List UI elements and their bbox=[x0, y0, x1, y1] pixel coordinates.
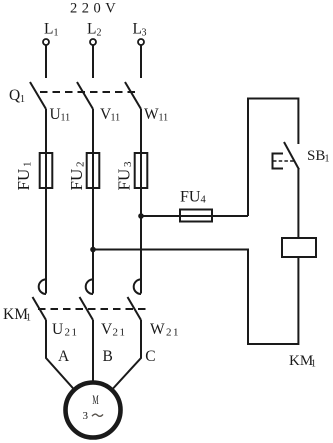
svg-text:B: B bbox=[103, 348, 113, 365]
svg-text:220V: 220V bbox=[70, 1, 120, 17]
svg-text:FU: FU bbox=[67, 169, 86, 191]
svg-text:V: V bbox=[101, 321, 113, 338]
svg-text:3: 3 bbox=[83, 410, 89, 422]
fuse FU1 bbox=[40, 153, 53, 188]
terminal L2 bbox=[90, 39, 96, 45]
svg-text:A: A bbox=[58, 348, 70, 365]
pushbutton SB1 blade bbox=[284, 142, 299, 170]
motor M1 circle bbox=[66, 383, 121, 438]
pushbutton SB1 actuator bbox=[273, 153, 295, 170]
wire phase A to motor bbox=[46, 320, 74, 389]
switch Q1 pole 2 blade bbox=[77, 82, 93, 109]
node W11 bbox=[144, 106, 168, 124]
svg-text:1: 1 bbox=[311, 359, 316, 370]
svg-text:4: 4 bbox=[201, 195, 207, 206]
node L3 bbox=[133, 21, 147, 39]
wire phase B to motor bbox=[92, 320, 94, 382]
fuse FU4 bbox=[180, 210, 212, 222]
terminal L3 bbox=[138, 39, 144, 45]
svg-text:Q: Q bbox=[9, 87, 20, 104]
svg-text:2: 2 bbox=[75, 162, 87, 168]
switch Q1 pole 3 blade bbox=[125, 82, 141, 109]
wire V phase vertical bbox=[92, 109, 94, 294]
pushbutton SB1 label bbox=[307, 148, 330, 165]
junction on V phase bbox=[90, 247, 96, 253]
switch Q1 linkage dashed line bbox=[40, 91, 140, 93]
svg-text:SB: SB bbox=[307, 148, 325, 164]
svg-text:1: 1 bbox=[325, 154, 330, 165]
switch Q1 pole 1 blade bbox=[30, 82, 46, 109]
svg-text:21: 21 bbox=[65, 327, 79, 339]
node L2 bbox=[87, 21, 102, 39]
wire L1 to switch bbox=[45, 45, 47, 78]
wire control loop up and across to SB1 bbox=[248, 99, 298, 217]
svg-text:2: 2 bbox=[97, 28, 102, 39]
svg-text:KM: KM bbox=[289, 353, 313, 369]
fuse FU2 label bbox=[67, 162, 87, 191]
node W21 bbox=[150, 321, 180, 339]
motor 3-phase label bbox=[83, 410, 104, 422]
svg-text:11: 11 bbox=[111, 113, 121, 124]
svg-text:U: U bbox=[52, 321, 63, 338]
switch Q1 label bbox=[9, 87, 25, 105]
svg-text:1: 1 bbox=[20, 94, 25, 105]
svg-text:1: 1 bbox=[26, 313, 31, 324]
svg-text:U: U bbox=[50, 106, 61, 123]
coil KM1 label bbox=[289, 353, 316, 370]
contactor coil KM1 bbox=[282, 238, 316, 257]
fuse FU2 bbox=[87, 153, 100, 188]
svg-text:11: 11 bbox=[61, 113, 71, 124]
wire phase C to motor bbox=[113, 320, 141, 389]
svg-text:21: 21 bbox=[113, 327, 127, 339]
fuse FU3 bbox=[135, 153, 148, 188]
contactor KM1 label bbox=[3, 306, 31, 324]
svg-text:W: W bbox=[144, 106, 159, 123]
contactor KM1 pole 1 arc bbox=[39, 279, 46, 294]
junction on W phase bbox=[138, 213, 144, 219]
svg-text:W: W bbox=[150, 321, 165, 338]
svg-text:C: C bbox=[145, 348, 155, 365]
svg-text:21: 21 bbox=[166, 327, 180, 339]
fuse FU4 label bbox=[180, 189, 207, 206]
svg-text:L: L bbox=[44, 21, 53, 38]
node L1 bbox=[44, 21, 59, 39]
svg-text:FU: FU bbox=[14, 169, 33, 191]
contactor KM1 pole 1 blade bbox=[33, 297, 47, 320]
svg-text:11: 11 bbox=[159, 113, 169, 124]
wire U phase vertical bbox=[45, 109, 47, 294]
contactor KM1 pole 2 arc bbox=[86, 279, 93, 294]
wire W junction to FU4 and control loop bbox=[141, 215, 248, 217]
contactor KM1 linkage dashed line bbox=[38, 308, 147, 310]
svg-text:3: 3 bbox=[122, 161, 134, 167]
node V21 bbox=[101, 321, 127, 339]
contactor KM1 pole 2 blade bbox=[80, 297, 94, 320]
svg-text:M: M bbox=[92, 394, 99, 408]
wire L3 to switch bbox=[140, 45, 142, 78]
svg-text:KM: KM bbox=[3, 306, 28, 323]
node U11 bbox=[50, 106, 71, 124]
wire coil to bottom and back to V phase bbox=[93, 250, 298, 345]
svg-text:FU: FU bbox=[115, 169, 134, 191]
node U21 bbox=[52, 321, 79, 339]
svg-text:1: 1 bbox=[54, 28, 59, 39]
contactor KM1 pole 3 blade bbox=[128, 297, 142, 320]
svg-text:FU: FU bbox=[180, 189, 201, 206]
fuse FU3 label bbox=[115, 161, 135, 191]
terminal L1 bbox=[43, 39, 49, 45]
contactor KM1 pole 3 arc bbox=[134, 279, 141, 294]
node V11 bbox=[100, 106, 120, 124]
wire L2 to switch bbox=[92, 45, 94, 78]
wire SB1 to coil bbox=[297, 169, 299, 237]
svg-text:3: 3 bbox=[142, 28, 147, 39]
wire W phase vertical bbox=[140, 109, 142, 294]
fuse FU1 label bbox=[14, 162, 34, 191]
svg-text:1: 1 bbox=[22, 162, 34, 168]
svg-text:L: L bbox=[87, 21, 96, 38]
